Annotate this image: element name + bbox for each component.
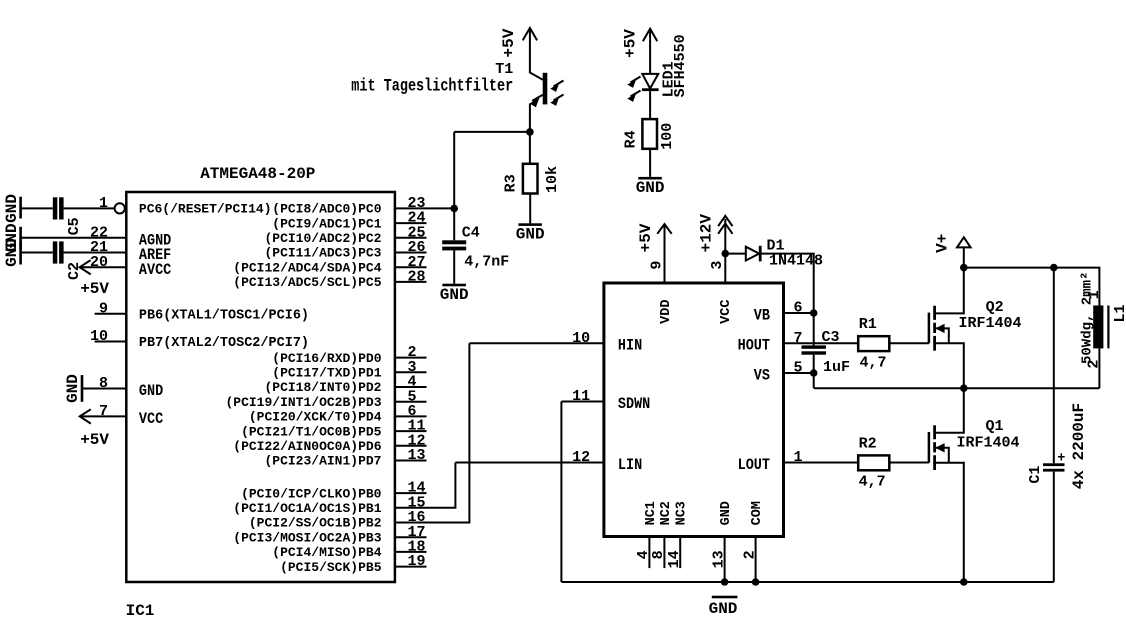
svg-text:28: 28 — [408, 269, 426, 286]
wire C5 to pin 1 — [64, 207, 115, 209]
ground GND (R4) — [638, 177, 662, 180]
resistor R2 — [858, 455, 889, 470]
capacitor C1 — [1043, 463, 1065, 466]
node VCC/D1 junction — [722, 250, 730, 258]
wire LIN net — [455, 462, 604, 464]
svg-text:8: 8 — [650, 550, 667, 559]
HOUT pin 7 wire to R1 — [784, 342, 859, 344]
capacitor C3 — [802, 345, 827, 348]
svg-text:12: 12 — [572, 449, 590, 466]
svg-text:AVCC: AVCC — [139, 262, 172, 279]
svg-text:20: 20 — [90, 254, 108, 271]
svg-text:(PCI4/MISO)PB4: (PCI4/MISO)PB4 — [272, 545, 381, 560]
wire R3 to ground — [529, 194, 531, 224]
ground GND (net at IC1 pin 8) — [81, 375, 84, 402]
wire D1 to VB node — [762, 254, 814, 346]
NC2 pin 8 stub — [663, 537, 665, 569]
svg-text:NC2: NC2 — [659, 501, 674, 525]
svg-text:+5V: +5V — [622, 29, 640, 58]
svg-text:GND: GND — [3, 194, 21, 223]
ground GND (C4) — [442, 284, 466, 287]
svg-text:IC1: IC1 — [126, 602, 155, 617]
svg-text:R4: R4 — [622, 130, 639, 148]
wire HIN net — [469, 342, 604, 344]
svg-text:(PCI12/ADC4/SDA)PC4: (PCI12/ADC4/SDA)PC4 — [233, 260, 381, 275]
svg-text:ATMEGA48-20P: ATMEGA48-20P — [200, 165, 315, 183]
ground GND (driver) — [712, 596, 738, 599]
LOUT pin 1 wire to R2 — [784, 462, 859, 464]
wire R4 to ground — [649, 149, 651, 177]
svg-text:NC1: NC1 — [644, 501, 659, 525]
transistor Q1 IRF1404 — [928, 432, 931, 463]
SDWN pin 11 wire — [561, 401, 604, 403]
svg-text:+5V: +5V — [80, 280, 109, 298]
svg-text:(PCI0/ICP/CLKO)PB0: (PCI0/ICP/CLKO)PB0 — [241, 486, 382, 501]
pin 23 wire to node — [395, 207, 454, 209]
node V+ junction — [960, 264, 968, 272]
ground rail wire — [561, 581, 1053, 583]
svg-text:Q2: Q2 — [986, 299, 1004, 316]
svg-text:4x 2200uF: 4x 2200uF — [1070, 403, 1088, 489]
svg-text:10: 10 — [572, 330, 590, 347]
wire R2 to Q1 gate — [889, 462, 929, 464]
wire pin 16 PB2 to HIN — [395, 343, 470, 522]
svg-text:GND: GND — [3, 238, 21, 267]
svg-text:(PCI9/ADC1)PC1: (PCI9/ADC1)PC1 — [272, 216, 381, 231]
wire +5V to LED1 anode — [649, 29, 651, 74]
wire VCC pin 3 — [724, 219, 726, 283]
transistor T1 phototransistor — [530, 73, 543, 80]
capacitor C4 — [442, 240, 466, 244]
svg-text:(PCI21/T1/OC0B)PD5: (PCI21/T1/OC0B)PD5 — [241, 424, 382, 439]
svg-text:1N4148: 1N4148 — [769, 252, 823, 269]
wire AGND pin 22 — [21, 237, 127, 239]
svg-text:VB: VB — [754, 308, 770, 325]
svg-text:(PCI18/INT0)PD2: (PCI18/INT0)PD2 — [264, 380, 381, 395]
svg-text:5: 5 — [794, 360, 803, 377]
pin 9 stub PB6 — [95, 313, 127, 315]
svg-text:10: 10 — [90, 328, 108, 345]
svg-text:(PCI11/ADC3)PC3: (PCI11/ADC3)PC3 — [264, 246, 381, 261]
svg-text:GND: GND — [636, 179, 665, 197]
ground GND (net at IC1 pin 1 / C5) — [19, 197, 22, 219]
wire GND to C2 — [21, 252, 53, 254]
svg-text:4,7: 4,7 — [859, 473, 886, 490]
svg-text:2: 2 — [741, 550, 758, 559]
VB pin 6 stub — [784, 312, 814, 314]
wire +5V to T1 collector — [529, 28, 531, 73]
wire C3 to VS node — [813, 355, 815, 389]
wire node down to C4 — [453, 132, 455, 240]
svg-text:COM: COM — [750, 501, 765, 525]
node pin 2 on ground rail — [752, 578, 760, 586]
svg-text:7: 7 — [794, 330, 803, 347]
driver IC box — [604, 283, 784, 537]
supply +5V arrow (T1 collector) — [523, 28, 537, 41]
svg-text:SDWN: SDWN — [618, 396, 650, 413]
svg-text:VS: VS — [754, 368, 770, 385]
wire C4 to ground — [453, 250, 455, 283]
svg-text:GND: GND — [516, 225, 545, 243]
svg-text:10k: 10k — [544, 166, 561, 193]
svg-text:L1: L1 — [1112, 304, 1126, 322]
NC3 pin 14 stub — [679, 537, 681, 569]
svg-text:+5V: +5V — [500, 28, 518, 57]
svg-text:9: 9 — [649, 261, 666, 270]
wire GND to pin 8 — [82, 388, 126, 390]
svg-text:GND: GND — [139, 383, 164, 400]
svg-text:IRF1404: IRF1404 — [959, 315, 1022, 332]
svg-text:GND: GND — [64, 374, 82, 403]
svg-text:14: 14 — [666, 550, 683, 568]
svg-text:NC3: NC3 — [675, 501, 690, 525]
wire SDWN down to ground rail — [560, 402, 562, 583]
svg-text:VCC: VCC — [719, 300, 734, 324]
svg-text:(PCI3/MOSI/OC2A)PB3: (PCI3/MOSI/OC2A)PB3 — [233, 530, 381, 545]
svg-text:+5V: +5V — [80, 431, 109, 449]
svg-text:PB6(XTAL1/TOSC1/PCI6): PB6(XTAL1/TOSC1/PCI6) — [139, 308, 309, 323]
svg-text:(PCI22/AIN0OC0A)PD6: (PCI22/AIN0OC0A)PD6 — [233, 439, 381, 454]
ground GND (net at IC1 pin 22 AGND) — [19, 227, 22, 250]
capacitor C5 — [53, 197, 58, 219]
LED1 light arrows — [631, 77, 641, 83]
ground GND (net at IC1 pin 21 / C2) — [19, 242, 22, 265]
resistor R1 — [858, 336, 889, 351]
wire R1 to Q2 gate — [889, 342, 929, 344]
svg-text:+12V: +12V — [698, 214, 716, 253]
NC1 pin 4 stub — [648, 537, 650, 569]
svg-text:HOUT: HOUT — [738, 338, 771, 355]
LED LED1 SFH4550 — [642, 74, 658, 89]
wire +5V to pin 7 — [80, 415, 127, 417]
supply +5V arrow (LED1) — [643, 29, 657, 42]
wire V+ to rail — [963, 247, 965, 267]
resistor R4 — [642, 119, 657, 149]
supply V+ open triangle — [957, 237, 971, 247]
svg-text:4,7: 4,7 — [860, 355, 887, 372]
node pin23/C4 junction — [450, 205, 458, 213]
svg-text:(PCI5/SCK)PB5: (PCI5/SCK)PB5 — [280, 560, 382, 575]
svg-text:1uF: 1uF — [823, 359, 850, 376]
node pin 13 on ground rail — [721, 578, 729, 586]
svg-text:R2: R2 — [859, 436, 877, 453]
svg-text:C3: C3 — [822, 329, 840, 346]
supply +5V arrow (AVCC pin 20) — [80, 260, 91, 274]
svg-text:C2: C2 — [66, 262, 83, 280]
wire C2 to pin 21 — [64, 252, 127, 254]
svg-text:9: 9 — [99, 300, 108, 317]
svg-text:50Wdg, 2mm²: 50Wdg, 2mm² — [1079, 272, 1095, 364]
wire GND to C5 — [21, 207, 53, 209]
node Q2 source / Q1 drain phase junction — [960, 384, 968, 392]
svg-text:7: 7 — [99, 403, 108, 420]
capacitor C1 wire from V+ — [1053, 268, 1055, 464]
svg-text:(PCI23/AIN1)PD7: (PCI23/AIN1)PD7 — [264, 454, 381, 469]
wire pin 15 PB1 to LIN — [395, 463, 456, 508]
pin stubs 2-6,11-13 (PD0-PD7) — [395, 357, 427, 359]
svg-text:+5V: +5V — [637, 223, 655, 252]
svg-text:19: 19 — [408, 553, 426, 570]
svg-text:(PCI13/ADC5/SCL)PC5: (PCI13/ADC5/SCL)PC5 — [233, 275, 381, 290]
diode D1 1N4148 — [746, 247, 759, 261]
supply +12V double arrow (VCC pin 3) — [718, 216, 732, 226]
svg-text:GND: GND — [719, 501, 734, 525]
svg-text:SFH4550: SFH4550 — [672, 34, 689, 97]
GND pin 13 stub — [724, 537, 726, 583]
svg-text:(PCI10/ADC2)PC2: (PCI10/ADC2)PC2 — [264, 231, 381, 246]
svg-text:R3: R3 — [503, 174, 520, 192]
svg-text:13: 13 — [710, 550, 727, 568]
svg-text:8: 8 — [99, 375, 108, 392]
svg-text:(PCI1/OC1A/OC1S)PB1: (PCI1/OC1A/OC1S)PB1 — [233, 501, 381, 516]
svg-text:(PCI19/INT1/OC2B)PD3: (PCI19/INT1/OC2B)PD3 — [225, 395, 381, 410]
svg-text:R1: R1 — [859, 316, 877, 333]
wire T1 emitter down — [529, 104, 531, 164]
svg-text:1: 1 — [99, 195, 108, 212]
wire C1 to ground rail — [1053, 472, 1055, 582]
pin stubs 14,17-19 (PB0,PB3-PB5) — [395, 492, 427, 494]
wire +5V to pin 20 — [80, 266, 127, 268]
svg-text:GND: GND — [440, 286, 469, 304]
svg-text:C5: C5 — [66, 217, 83, 235]
svg-text:mit Tageslichtfilter: mit Tageslichtfilter — [351, 76, 513, 96]
svg-text:LOUT: LOUT — [738, 457, 771, 474]
resistor R3 — [523, 164, 538, 194]
svg-text:V+: V+ — [934, 234, 952, 253]
svg-text:PC6(/RESET/PCI14): PC6(/RESET/PCI14) — [139, 202, 272, 217]
svg-text:HIN: HIN — [618, 338, 642, 355]
node T1/R3/C4 junction — [526, 128, 534, 136]
svg-text:(PCI17/TXD)PD1: (PCI17/TXD)PD1 — [272, 366, 381, 381]
svg-text:(PCI8/ADC0)PC0: (PCI8/ADC0)PC0 — [272, 202, 381, 217]
wire VS to phase node — [814, 387, 1100, 389]
supply +5V arrow (VCC pin 7) — [80, 409, 91, 423]
svg-text:LIN: LIN — [618, 457, 642, 474]
svg-text:PB7(XTAL2/TOSC2/PCI7): PB7(XTAL2/TOSC2/PCI7) — [139, 336, 309, 351]
wire node to T1 emitter — [454, 131, 530, 133]
wire LED1 cathode to R4 — [649, 91, 651, 119]
svg-text:1: 1 — [794, 449, 803, 466]
svg-text:Q1: Q1 — [986, 418, 1004, 435]
wire L1 to phase node — [1098, 348, 1100, 388]
T1 light arrows — [554, 81, 564, 87]
svg-text:VCC: VCC — [139, 411, 164, 428]
svg-text:4,7nF: 4,7nF — [464, 254, 509, 271]
node VB junction — [810, 309, 818, 317]
svg-text:+: + — [1057, 452, 1065, 467]
wire VDD pin 9 — [664, 224, 666, 283]
svg-text:IRF1404: IRF1404 — [957, 434, 1020, 451]
svg-text:100: 100 — [659, 123, 676, 150]
pin 10 stub PB7 — [95, 341, 127, 343]
transistor Q2 IRF1404 — [928, 313, 931, 344]
wire VCC node to D1 — [725, 253, 746, 255]
svg-text:GND: GND — [709, 600, 738, 617]
pin stubs 24-28 — [395, 222, 427, 224]
svg-text:C4: C4 — [462, 224, 480, 241]
capacitor C2 — [53, 241, 58, 263]
svg-text:C1: C1 — [1027, 466, 1044, 484]
svg-text:3: 3 — [709, 261, 726, 270]
svg-text:(PCI20/XCK/T0)PD4: (PCI20/XCK/T0)PD4 — [249, 410, 382, 425]
VS pin 5 stub — [784, 372, 814, 374]
node Q1 source on ground rail — [960, 578, 968, 586]
node VS junction — [810, 369, 818, 377]
svg-text:(PCI16/RXD)PD0: (PCI16/RXD)PD0 — [272, 351, 381, 366]
node C1 top junction — [1050, 264, 1058, 272]
svg-text:13: 13 — [408, 447, 426, 464]
COM pin 2 stub — [755, 537, 757, 583]
ground GND (R3) — [518, 223, 542, 226]
pin 1 inverted reset circle — [115, 203, 125, 213]
svg-text:VDD: VDD — [659, 300, 674, 324]
svg-text:11: 11 — [572, 388, 590, 405]
svg-text:(PCI2/SS/OC1B)PB2: (PCI2/SS/OC1B)PB2 — [249, 516, 382, 531]
V+ rail wire — [964, 268, 1100, 306]
svg-text:6: 6 — [794, 300, 803, 317]
IC1 ATmega48 box — [126, 192, 395, 582]
supply +5V arrow (VDD pin 9) — [657, 224, 671, 234]
